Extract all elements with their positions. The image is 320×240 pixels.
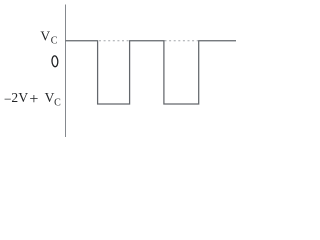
svg-text:V: V bbox=[45, 90, 55, 105]
svg-text:+: + bbox=[29, 91, 38, 108]
svg-text:2: 2 bbox=[11, 90, 18, 105]
svg-text:−: − bbox=[4, 91, 12, 106]
svg-text:V: V bbox=[18, 90, 28, 105]
svg-text:C: C bbox=[51, 36, 58, 47]
svg-text:C: C bbox=[54, 98, 61, 109]
svg-text:V: V bbox=[40, 28, 50, 43]
